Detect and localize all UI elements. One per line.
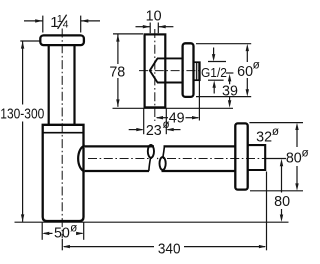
svg-text:50: 50 [54,226,70,242]
svg-text:78: 78 [109,64,125,80]
svg-text:G1/2: G1/2 [201,65,227,80]
svg-text:49: 49 [169,110,185,126]
svg-text:ø: ø [70,222,77,235]
svg-text:ø: ø [163,118,170,131]
svg-text:ø: ø [302,147,309,160]
svg-text:80: 80 [274,194,290,210]
svg-text:23: 23 [146,123,162,139]
svg-text:32: 32 [256,129,272,145]
svg-text:60: 60 [237,64,253,80]
svg-text:340: 340 [158,240,181,256]
svg-text:ø: ø [272,125,279,138]
svg-text:ø: ø [253,58,260,71]
svg-text:39: 39 [222,83,238,99]
svg-text:130-300: 130-300 [0,106,44,122]
svg-text:10: 10 [146,9,162,25]
svg-text:80: 80 [286,151,302,167]
